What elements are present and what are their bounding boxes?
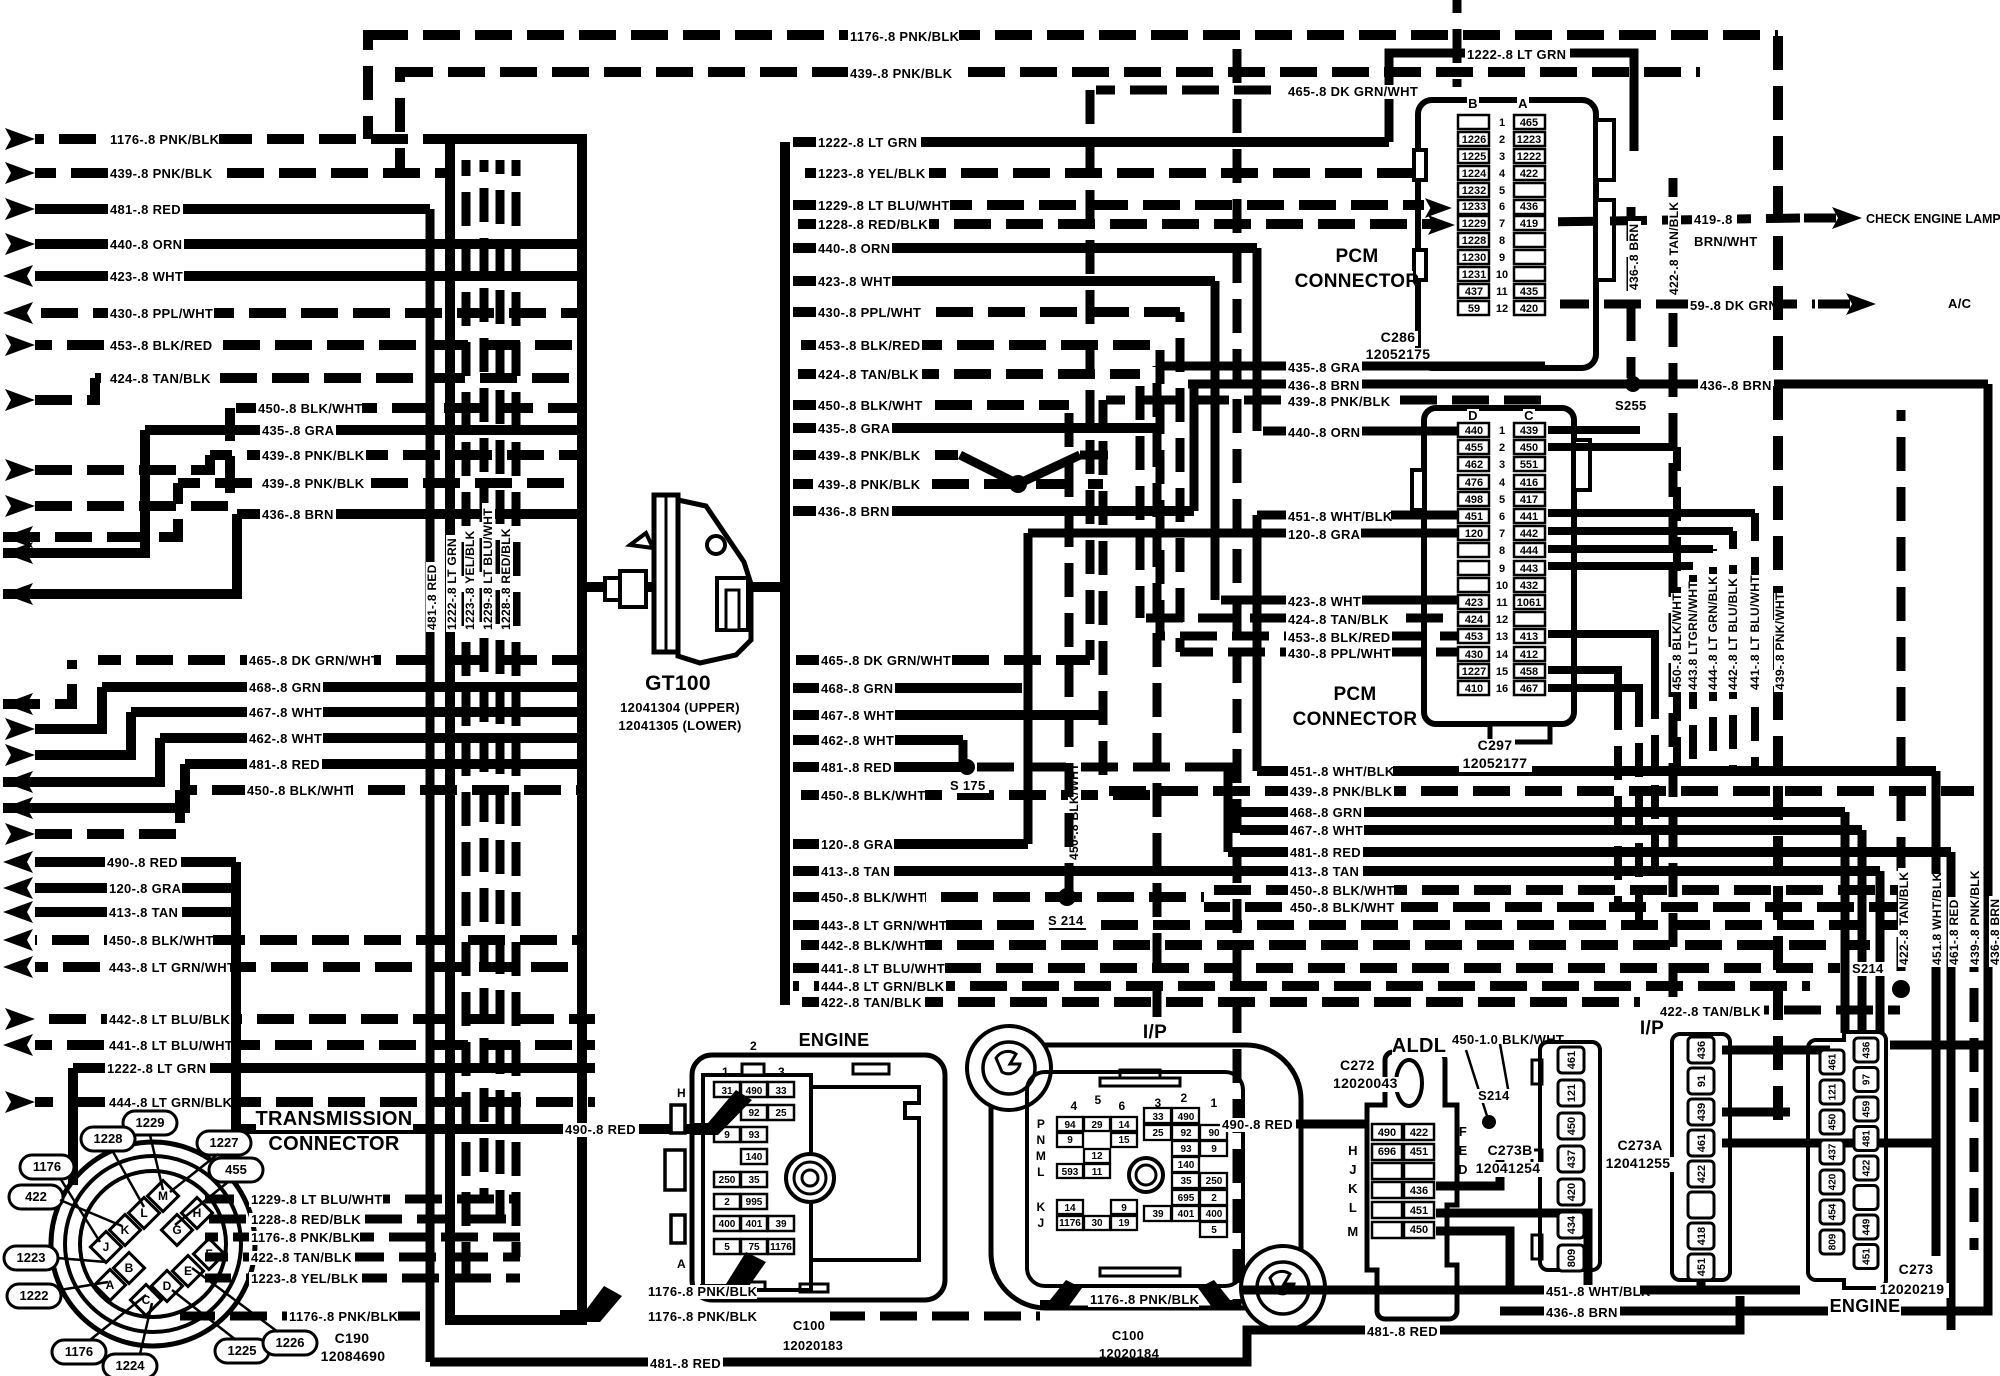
connector C297 pin row 15	[1458, 664, 1489, 678]
svg-text:93: 93	[748, 1130, 760, 1141]
svg-text:CONNECTOR: CONNECTOR	[268, 1133, 399, 1155]
svg-text:5: 5	[1095, 1093, 1102, 1107]
svg-text:451.8 WHT/BLK: 451.8 WHT/BLK	[1930, 872, 1944, 965]
svg-text:450: 450	[1410, 1224, 1428, 1236]
wire 424-.8 TAN/BLK left row y378	[95, 373, 582, 383]
svg-text:A: A	[1518, 96, 1528, 111]
svg-text:5: 5	[724, 1242, 730, 1253]
svg-text:1229-.8 LT BLU/WHT: 1229-.8 LT BLU/WHT	[481, 508, 495, 630]
svg-text:1227: 1227	[1462, 666, 1486, 678]
svg-text:L: L	[1037, 1165, 1045, 1179]
svg-text:481-.8 RED: 481-.8 RED	[249, 757, 320, 772]
svg-text:436-.8 BRN: 436-.8 BRN	[1988, 899, 2000, 965]
connector C273B pin 461	[1558, 1047, 1584, 1073]
svg-text:30: 30	[1091, 1218, 1103, 1229]
connector C273B side tabs	[1532, 1060, 1542, 1084]
wire riser x1740 bottom	[1700, 1296, 1740, 1330]
label C286	[1378, 331, 1418, 346]
connector C273 right pin 97	[1854, 1068, 1878, 1092]
svg-text:D: D	[1468, 408, 1478, 423]
connector I/P right grid row 7	[1144, 1206, 1171, 1221]
wire 430-.8 PPL/WHT left row y313	[35, 308, 582, 318]
wire 439-.8 PNK/BLK below S255	[1106, 396, 1545, 405]
svg-text:N: N	[1037, 1133, 1046, 1147]
wire 450-.8 BLK/WHT from C297	[1548, 443, 1677, 451]
wire riser far-right x1778 dashed 439 PNK/WHT	[1773, 30, 1783, 1120]
svg-text:16: 16	[1496, 683, 1508, 695]
connector ENGINE top slot	[853, 1064, 889, 1074]
label C100 12020183	[791, 1319, 827, 1333]
wire 481-.8 RED bottom long	[430, 1330, 1700, 1362]
label 422-.8 TAN/BLK rotated	[1667, 198, 1681, 297]
svg-text:435: 435	[1520, 286, 1538, 298]
wire 1228-.8 RED/BLK vertical bus	[496, 160, 505, 1219]
svg-text:490: 490	[746, 1086, 763, 1097]
connector C273B pin 809	[1558, 1245, 1584, 1271]
svg-text:481-.8 RED: 481-.8 RED	[425, 564, 439, 630]
pin id oval 1176	[20, 1155, 74, 1179]
connector I/P K-J grid row 2	[1057, 1216, 1083, 1230]
connector C297 pin row 2	[1458, 440, 1489, 454]
svg-text:422: 422	[1696, 1165, 1708, 1183]
svg-text:I/P: I/P	[1143, 1022, 1167, 1043]
wire 430-.8 PPL/WHT middle row y312	[793, 307, 1180, 317]
svg-text:1222-.8 LT GRN: 1222-.8 LT GRN	[107, 1061, 206, 1076]
svg-text:400: 400	[1206, 1209, 1223, 1220]
svg-text:439-.8 PNK/WHT: 439-.8 PNK/WHT	[1773, 592, 1787, 690]
junction S214 near ALDL dot	[1482, 1115, 1496, 1129]
svg-text:1176: 1176	[65, 1344, 93, 1359]
svg-text:BRN/WHT: BRN/WHT	[1694, 234, 1757, 249]
connector C297 pin row 1	[1458, 423, 1489, 437]
pin id oval 422	[9, 1185, 63, 1209]
svg-text:435-.8 GRA: 435-.8 GRA	[818, 421, 891, 436]
label PCM CONNECTOR lower	[1335, 684, 1375, 704]
connector C273A pin 461	[1688, 1130, 1714, 1156]
svg-text:12020219: 12020219	[1880, 1281, 1945, 1297]
svg-text:422: 422	[1520, 168, 1538, 180]
wire riser above C286	[1453, 0, 1462, 87]
wire 440-.8 ORN left row y244	[35, 239, 582, 249]
wire 1222-.8 LT GRN staple over C286	[1389, 53, 1634, 151]
svg-text:424-.8 TAN/BLK: 424-.8 TAN/BLK	[1288, 612, 1389, 627]
wire riser 467 WHT right	[1858, 830, 1867, 1033]
svg-text:481: 481	[1862, 1130, 1873, 1147]
svg-text:451: 451	[1696, 1258, 1708, 1276]
svg-text:92: 92	[1180, 1128, 1192, 1139]
svg-text:2: 2	[1211, 1193, 1217, 1204]
wire 443-.8 LT GRN/WHT middle row y925	[793, 920, 1900, 930]
connector ALDL body	[1367, 1052, 1457, 1319]
svg-text:1228: 1228	[94, 1131, 123, 1146]
svg-text:423: 423	[1465, 597, 1483, 609]
svg-text:1223-.8 YEL/BLK: 1223-.8 YEL/BLK	[818, 166, 926, 181]
svg-text:33: 33	[1152, 1112, 1164, 1123]
wire 1228-.8 RED/BLK middle row y224	[793, 219, 1438, 229]
wire riser 424 TAN/BLK x1140	[1136, 374, 1145, 618]
connector C286 pin row 7	[1458, 216, 1489, 230]
label C100 12020184	[1110, 1329, 1146, 1343]
wire riser 439 PNK/BLK x1103	[1099, 400, 1108, 791]
wire 490-.8 RED from I/P to ALDL	[1232, 1120, 1368, 1129]
svg-text:450: 450	[1520, 442, 1538, 454]
svg-text:450-.8 BLK/WHT: 450-.8 BLK/WHT	[247, 783, 352, 798]
svg-text:439-.8 PNK/BLK: 439-.8 PNK/BLK	[262, 448, 365, 463]
wire 435-.8 GRA to C286 row	[1163, 362, 1545, 371]
wire 413-.8 TAN left row y912	[35, 907, 240, 917]
connector C273 right pin 422	[1854, 1156, 1878, 1180]
svg-text:424-.8 TAN/BLK: 424-.8 TAN/BLK	[110, 371, 211, 386]
connector C273 right pin 436	[1854, 1038, 1878, 1062]
svg-text:2: 2	[1499, 442, 1505, 454]
connector C273 right pin blank	[1854, 1186, 1878, 1210]
svg-text:D: D	[1458, 1162, 1468, 1177]
connector ENGINE pin row 6	[714, 1194, 740, 1209]
label C272 12020043	[1338, 1059, 1378, 1074]
svg-text:14: 14	[1496, 649, 1509, 661]
svg-text:461: 461	[1566, 1051, 1578, 1069]
svg-text:439-.8 PNK/BLK: 439-.8 PNK/BLK	[818, 477, 921, 492]
svg-text:12: 12	[1091, 1151, 1103, 1162]
svg-text:465-.8 DK GRN/WHT: 465-.8 DK GRN/WHT	[821, 653, 951, 668]
svg-text:422-.8 TAN/BLK: 422-.8 TAN/BLK	[251, 1250, 352, 1265]
svg-text:481-.8 RED: 481-.8 RED	[1290, 845, 1361, 860]
svg-text:E: E	[184, 1264, 192, 1278]
svg-text:1232: 1232	[1462, 185, 1486, 197]
svg-text:461-.8 RED: 461-.8 RED	[1947, 899, 1961, 965]
wire 465-.8 DK GRN/WHT left row y660	[98, 655, 582, 665]
svg-text:450: 450	[1828, 1113, 1839, 1130]
pin id oval 1227	[197, 1131, 251, 1155]
svg-text:1176-.8 PNK/BLK: 1176-.8 PNK/BLK	[251, 1230, 361, 1245]
wire 419-.8 BRN/WHT to check engine lamp	[1545, 218, 1800, 222]
svg-text:H: H	[677, 1086, 686, 1100]
svg-text:1: 1	[1211, 1096, 1218, 1110]
svg-text:9: 9	[1499, 252, 1505, 264]
svg-text:436-.8 BRN: 436-.8 BRN	[818, 504, 890, 519]
wire riser x1901 dashed	[1897, 410, 1906, 989]
connector C190 pin H	[181, 1197, 212, 1228]
wire 481-.8 RED dashes right of S175	[977, 763, 1204, 772]
wire elbow 439 PNK/BLK entry a	[35, 455, 210, 470]
wire 450-.8 BLK/WHT left row y408	[230, 403, 582, 413]
wire 441-.8 LT BLU/WHT middle row y968	[793, 963, 1840, 973]
svg-text:461: 461	[1696, 1134, 1708, 1152]
connector C286 pin row 5	[1458, 183, 1489, 197]
svg-text:1176-.8 PNK/BLK: 1176-.8 PNK/BLK	[648, 1284, 758, 1299]
svg-text:995: 995	[746, 1197, 763, 1208]
connector ALDL pin row 3	[1372, 1163, 1402, 1179]
wire 481-.8 RED mid-right row y852	[1228, 847, 1951, 857]
wire 1222-.8 LT GRN vertical bus	[445, 139, 455, 1320]
wire 440-.8 ORN middle row y248	[793, 243, 1257, 253]
wire 443.8 LTGRN/WHT from C297	[1548, 562, 1693, 570]
svg-text:1176-.8 PNK/BLK: 1176-.8 PNK/BLK	[850, 29, 960, 44]
svg-text:8: 8	[1499, 545, 1505, 557]
wire 444-.8 LT GRN/BLK from C297	[1548, 545, 1713, 553]
arrow 1176 bottom	[560, 1286, 622, 1322]
svg-text:422: 422	[1862, 1159, 1873, 1176]
svg-text:PCM: PCM	[1333, 684, 1376, 705]
wire 439 PNK/WHT stub from C297 pin C1	[1548, 426, 1640, 434]
wire 436-.8 BRN middle row y511	[793, 506, 1194, 516]
wire 451-.8 WHT/BLK into C297	[1257, 511, 1458, 520]
svg-text:93: 93	[1180, 1144, 1192, 1155]
svg-text:439-.8 PNK/BLK: 439-.8 PNK/BLK	[850, 66, 953, 81]
pin id oval 1222	[7, 1284, 61, 1308]
svg-text:15: 15	[1496, 666, 1508, 678]
svg-text:410: 410	[1465, 683, 1483, 695]
connector C286 pin row 6	[1458, 200, 1489, 214]
svg-text:413-.8 TAN: 413-.8 TAN	[821, 864, 890, 879]
connector C273B pin 450	[1558, 1113, 1584, 1139]
svg-text:J: J	[103, 1240, 110, 1254]
connector C190 pin L	[128, 1197, 159, 1228]
svg-text:39: 39	[1152, 1209, 1164, 1220]
wire 481-.8 RED left row y209	[35, 204, 430, 214]
connector C286 pin column headers	[1467, 97, 1479, 111]
wire elbow 481 RED entry	[3, 764, 185, 808]
svg-text:1222-.8 LT GRN: 1222-.8 LT GRN	[818, 135, 917, 150]
svg-text:1223-.8 YEL/BLK: 1223-.8 YEL/BLK	[251, 1271, 359, 1286]
wire 435-.8 GRA middle row y428	[793, 423, 1157, 433]
svg-text:432: 432	[1520, 580, 1538, 592]
svg-text:A/C: A/C	[1948, 296, 1972, 311]
svg-text:97: 97	[1862, 1074, 1873, 1086]
svg-text:1223-.8 YEL/BLK: 1223-.8 YEL/BLK	[463, 530, 477, 630]
wire 453-.8 BLK/RED left row y345	[35, 340, 582, 350]
svg-text:29: 29	[1091, 1120, 1103, 1131]
connector I/P left grid row 3	[1084, 1149, 1110, 1163]
svg-text:1229-.8 LT BLU/WHT: 1229-.8 LT BLU/WHT	[818, 198, 950, 213]
svg-text:P: P	[1037, 1117, 1045, 1131]
svg-text:461: 461	[1828, 1053, 1839, 1070]
connector C297 pin row 7	[1458, 526, 1489, 540]
junction S214 right dot	[1892, 980, 1910, 998]
svg-text:481-.8 RED: 481-.8 RED	[110, 202, 181, 217]
svg-text:GT100: GT100	[645, 672, 711, 695]
svg-text:3: 3	[1499, 459, 1505, 471]
svg-text:440: 440	[1465, 425, 1483, 437]
svg-text:120-.8 GRA: 120-.8 GRA	[821, 837, 894, 852]
svg-text:PCM: PCM	[1335, 246, 1378, 267]
svg-text:5: 5	[1499, 185, 1505, 197]
wire 453-.8 BLK/RED middle row y345	[793, 340, 1160, 350]
svg-text:451-.8 WHT/BLK: 451-.8 WHT/BLK	[1288, 509, 1393, 524]
svg-text:400: 400	[719, 1219, 736, 1230]
wire riser 468 GRN right	[1841, 812, 1850, 1033]
connector C273 body	[1808, 1032, 1886, 1288]
svg-text:S 175: S 175	[950, 778, 985, 793]
svg-text:423-.8 WHT: 423-.8 WHT	[818, 274, 891, 289]
connector C286 pin row 11	[1458, 284, 1489, 298]
wire 1229-.8 LT BLU/WHT from transmission	[205, 1195, 520, 1204]
svg-text:1: 1	[722, 1065, 729, 1079]
svg-text:467-.8 WHT: 467-.8 WHT	[249, 705, 322, 720]
svg-text:481-.8 RED: 481-.8 RED	[650, 1356, 721, 1371]
svg-text:25: 25	[775, 1108, 787, 1119]
label 439-.8 PNK/WHT rotated	[1773, 592, 1787, 692]
svg-text:696: 696	[1378, 1146, 1396, 1158]
svg-text:9: 9	[1067, 1135, 1073, 1146]
wire 1229-.8 LT BLU/WHT middle row y205	[793, 200, 1424, 210]
wire 490-.8 RED left row y862	[35, 857, 236, 867]
wire C273A 461 to right	[1722, 1139, 1936, 1148]
connector C273 right pin 481	[1854, 1127, 1878, 1151]
svg-text:121: 121	[1566, 1084, 1578, 1102]
svg-text:J: J	[1349, 1162, 1357, 1177]
wire riser 120 GRA x1028	[1024, 533, 1033, 844]
connector ALDL pin row 6	[1372, 1222, 1402, 1238]
wire 439-.8 PNK/BLK left row y455	[210, 450, 582, 460]
connector C273 left pin 420	[1820, 1170, 1844, 1194]
wire elbow 465 DK GRN/WHT entry	[3, 660, 72, 704]
wire 443-.8 LT GRN/WHT left row y967	[35, 962, 582, 972]
svg-text:ENGINE: ENGINE	[799, 1030, 870, 1050]
svg-text:422-.8 TAN/BLK: 422-.8 TAN/BLK	[1897, 872, 1911, 965]
svg-text:467: 467	[1520, 683, 1538, 695]
wire 458 from C297 pin C15	[1548, 670, 1618, 700]
svg-text:450-.8 BLK/WHT: 450-.8 BLK/WHT	[1670, 593, 1684, 690]
svg-text:12052175: 12052175	[1366, 346, 1431, 362]
wire 1176-.8 PNK/BLK lower label	[830, 1312, 1040, 1321]
svg-text:B: B	[1468, 96, 1478, 111]
connector I/P right grid row 8	[1200, 1222, 1227, 1237]
svg-text:419-.8: 419-.8	[1694, 212, 1733, 227]
bus rail middle	[780, 142, 790, 1005]
svg-text:13: 13	[1496, 631, 1508, 643]
svg-text:2: 2	[1499, 134, 1505, 146]
connector ALDL pin row 4	[1372, 1182, 1402, 1198]
svg-text:12: 12	[1496, 614, 1508, 626]
connector ENGINE bolt	[786, 1154, 834, 1202]
pin id oval 1224	[103, 1354, 157, 1376]
svg-text:422-.8 TAN/BLK: 422-.8 TAN/BLK	[1667, 202, 1681, 295]
wire 451-.8 WHT/BLK bottom label	[1240, 1286, 1640, 1295]
svg-text:413-.8 TAN: 413-.8 TAN	[1290, 864, 1359, 879]
connector C190 pin E	[172, 1255, 203, 1286]
svg-text:490-.8 RED: 490-.8 RED	[565, 1122, 636, 1137]
svg-text:430-.8 PPL/WHT: 430-.8 PPL/WHT	[110, 306, 213, 321]
svg-text:449: 449	[1862, 1218, 1873, 1235]
svg-text:9: 9	[1499, 563, 1505, 575]
wire 450-.8 BLK/WHT mid-right row y907	[1204, 902, 1900, 912]
svg-text:1222-.8 LT GRN: 1222-.8 LT GRN	[1467, 47, 1566, 62]
connector I/P right grid row 6	[1172, 1190, 1199, 1205]
svg-text:3: 3	[1155, 1096, 1162, 1110]
svg-text:C: C	[1524, 408, 1534, 423]
connector I/P right grid row 3	[1172, 1141, 1199, 1156]
svg-text:453: 453	[1465, 631, 1483, 643]
wire elbow 450 BLK/WHT entry	[35, 408, 230, 506]
svg-text:C100: C100	[1112, 1328, 1144, 1343]
connector C273A pin 418	[1688, 1223, 1714, 1249]
svg-text:5: 5	[1499, 494, 1505, 506]
connector ENGINE inner body	[703, 1075, 811, 1290]
svg-text:439: 439	[1696, 1103, 1708, 1121]
svg-text:451: 451	[1410, 1205, 1428, 1217]
svg-text:422-.8 TAN/BLK: 422-.8 TAN/BLK	[1660, 1004, 1761, 1019]
wire 441-.8 LT BLU/WHT from C297	[1548, 509, 1755, 517]
svg-text:1222: 1222	[20, 1288, 49, 1303]
connector C273A pin 439	[1688, 1099, 1714, 1125]
wire 462 WHT elbow to S175	[959, 740, 968, 767]
svg-text:468-.8 GRN: 468-.8 GRN	[1290, 805, 1362, 820]
wire 441-.8 LT BLU/WHT left row y1045	[35, 1040, 595, 1050]
wire 1176-.8 PNK/BLK from transmission	[205, 1233, 520, 1242]
connector C190 pin D	[151, 1270, 182, 1301]
svg-text:420: 420	[1520, 303, 1538, 315]
svg-text:413: 413	[1520, 631, 1538, 643]
connector C273 right pin 451	[1854, 1245, 1878, 1269]
connector C286 pin row 3	[1458, 149, 1489, 163]
pin id oval 1228	[81, 1127, 135, 1151]
svg-text:1228-.8 RED/BLK: 1228-.8 RED/BLK	[251, 1212, 361, 1227]
svg-text:441-.8 LT BLU/WHT: 441-.8 LT BLU/WHT	[109, 1038, 233, 1053]
connector I/P C100 outer shell	[991, 1045, 1301, 1308]
svg-text:430-.8 PPL/WHT: 430-.8 PPL/WHT	[818, 305, 921, 320]
svg-text:1176: 1176	[1059, 1218, 1081, 1229]
connector C190 pin J	[90, 1231, 121, 1262]
connector C273 left pin 121	[1820, 1080, 1844, 1104]
label ENGINE upper	[797, 1031, 870, 1050]
wire riser 423 WHT x1215	[1211, 281, 1220, 600]
svg-text:120: 120	[1465, 528, 1483, 540]
svg-text:140: 140	[1178, 1160, 1195, 1171]
wire 430-.8 PPL/WHT into C297	[1180, 648, 1458, 657]
wire C273A 451 bottom to label	[1640, 1281, 1701, 1290]
wire 465-.8 DK GRN/WHT middle row y660	[793, 655, 1090, 665]
svg-text:5: 5	[1211, 1225, 1217, 1236]
label TRANSMISSION CONNECTOR	[256, 1109, 413, 1130]
svg-text:90: 90	[1208, 1128, 1220, 1139]
connector C273 left pin 454	[1820, 1200, 1844, 1224]
wire C273A 436 to right	[1722, 1046, 1830, 1055]
svg-text:1226: 1226	[276, 1335, 305, 1350]
connector C190 pin B	[113, 1252, 144, 1283]
label C297	[1475, 739, 1515, 754]
svg-text:121: 121	[1828, 1083, 1839, 1100]
svg-text:12041254: 12041254	[1476, 1160, 1541, 1176]
connector C190 pin M	[147, 1180, 178, 1211]
svg-text:1230: 1230	[1462, 252, 1486, 264]
svg-text:7: 7	[1499, 218, 1505, 230]
connector C273 left pin 461	[1820, 1050, 1844, 1074]
svg-text:443-.8 LT GRN/WHT: 443-.8 LT GRN/WHT	[821, 918, 947, 933]
wire riser 450 BLK/WHT x1069	[1065, 405, 1074, 897]
svg-text:465: 465	[1520, 117, 1538, 129]
svg-text:454: 454	[1828, 1203, 1839, 1220]
connector ENGINE bottom slots	[745, 1282, 765, 1290]
connector C190 pin A	[94, 1269, 125, 1300]
svg-text:444: 444	[1520, 545, 1539, 557]
svg-text:401: 401	[746, 1219, 763, 1230]
svg-text:418: 418	[1696, 1227, 1708, 1245]
svg-text:6: 6	[1119, 1099, 1126, 1113]
wire 450-.8 BLK/WHT mid-right row y890	[1204, 885, 1900, 895]
connector C273B pin 420	[1558, 1179, 1584, 1205]
svg-text:1227: 1227	[210, 1135, 239, 1150]
connector C297 pin row 8	[1458, 543, 1489, 557]
wire 453-.8 BLK/RED into C297	[1160, 632, 1458, 641]
wire 423-.8 WHT middle row y281	[793, 276, 1215, 286]
svg-text:459: 459	[1862, 1100, 1873, 1117]
wire 422 TAN/BLK riser	[1669, 178, 1678, 1002]
svg-text:2: 2	[724, 1197, 730, 1208]
wire C273A 439 to right	[1722, 1108, 1790, 1117]
wire elbow 468 GRN entry	[35, 687, 102, 729]
svg-text:1222-.8 LT GRN: 1222-.8 LT GRN	[445, 538, 459, 630]
